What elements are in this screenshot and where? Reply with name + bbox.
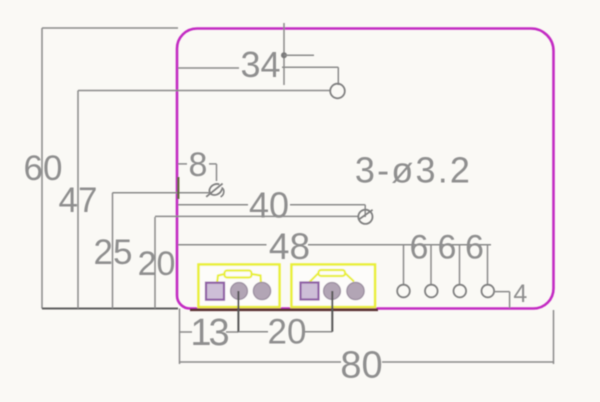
dim 34 line left segment <box>178 67 239 69</box>
dim 80 line left segment <box>180 361 342 363</box>
dim 60 vertical extension line <box>41 28 43 309</box>
block 1 component symbol rect <box>225 271 252 278</box>
dim 60 top horizontal extension <box>42 27 178 29</box>
dim 34 line right segment <box>282 66 338 68</box>
tick at board edge on hole B line <box>177 177 179 199</box>
centerline dot <box>281 52 287 58</box>
block 1 component left leg <box>217 274 225 284</box>
board bottom dark overlap segment <box>190 308 378 311</box>
dim 13 line left segment <box>180 331 193 333</box>
svg-text:6: 6 <box>465 229 484 267</box>
dim 40 line left segment <box>178 204 248 206</box>
dim 25 vertical extension line <box>112 193 114 309</box>
hole B slash <box>206 184 222 197</box>
dim 20 vertical extension line <box>154 217 156 309</box>
yellow block 2 outline <box>292 265 376 308</box>
svg-text:13: 13 <box>190 312 228 354</box>
centerline vertical at top <box>283 23 285 85</box>
block 2 round pad left <box>324 283 341 300</box>
pin 3 leader vertical <box>459 245 461 285</box>
pin 2 pad circle <box>425 285 438 298</box>
hole B hook <box>221 188 224 197</box>
svg-text:3-ø3.2: 3-ø3.2 <box>355 150 472 191</box>
block 2 component left leg <box>310 273 319 282</box>
dim 80 right vertical <box>553 310 555 364</box>
dim 20 bottom line right segment <box>305 331 332 333</box>
dim 47 vertical extension line <box>77 91 79 309</box>
svg-text:80: 80 <box>340 345 382 387</box>
hole C leader drop <box>364 205 366 217</box>
yellow block 1 outline <box>199 265 280 308</box>
pin 4 leader vertical <box>487 245 489 285</box>
pin 3 pad circle <box>454 285 467 298</box>
dim 4 step vertical <box>509 292 511 308</box>
dim 20 bottom line left segment <box>238 331 268 333</box>
svg-text:4: 4 <box>513 280 527 308</box>
pin 1 pad circle <box>397 285 410 298</box>
hole B (left mounting hole, tilted) <box>209 184 221 195</box>
block 1 round pad right <box>253 282 270 299</box>
block 2 component right leg <box>345 273 354 282</box>
dim 13/80 left vertical <box>179 309 181 365</box>
svg-text:48: 48 <box>269 226 310 267</box>
svg-text:6: 6 <box>410 229 429 267</box>
svg-text:8: 8 <box>189 146 208 184</box>
pin 2 leader vertical <box>430 245 432 285</box>
dim 13 line right segment <box>226 331 238 333</box>
dim 80 line right segment <box>382 361 554 363</box>
dim 40 line right segment <box>290 204 365 206</box>
dim 48 line right segment <box>308 244 491 246</box>
svg-text:60: 60 <box>24 149 63 188</box>
block 1 round pad left <box>231 283 248 300</box>
dim 20 top horizontal <box>155 215 359 217</box>
centerline short horizontal <box>284 54 314 56</box>
dim 25 horizontal line to hole B <box>113 192 210 194</box>
dim 4 step horizontal <box>494 291 510 293</box>
svg-text:20: 20 <box>268 313 307 352</box>
dim 8 bracket right segment <box>209 163 217 165</box>
hole A (mounting hole top right) <box>330 84 345 99</box>
block 2 square pad <box>301 283 319 300</box>
hole C (middle mounting hole) <box>358 210 372 224</box>
svg-text:25: 25 <box>94 233 133 272</box>
block 2 round pad right <box>347 282 364 299</box>
dim 8 bracket left segment <box>178 163 187 165</box>
hole A leader vertical <box>337 67 339 85</box>
block 2 component symbol rect <box>319 270 346 276</box>
svg-text:40: 40 <box>249 185 289 226</box>
pin 4 pad circle <box>482 285 495 298</box>
block 1 square pad <box>206 283 224 300</box>
pin 1 leader vertical <box>403 245 405 285</box>
board outline <box>177 29 554 309</box>
svg-text:34: 34 <box>240 44 280 85</box>
block 1 component right leg <box>252 274 262 284</box>
svg-text:20: 20 <box>138 245 176 283</box>
hole C slash <box>359 210 373 220</box>
svg-text:6: 6 <box>438 229 457 267</box>
dim 8 bracket vertical <box>216 164 218 181</box>
svg-text:47: 47 <box>59 181 98 220</box>
dim 48 line left segment <box>178 244 267 246</box>
block 1 pad leader vertical <box>237 291 239 332</box>
dim 47 horizontal line to hole A <box>78 90 331 92</box>
dim 60 bottom horizontal extension <box>42 308 178 310</box>
block 2 pad leader vertical <box>331 291 333 332</box>
